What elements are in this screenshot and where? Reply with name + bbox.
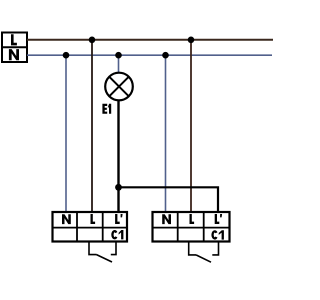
- junction: L bus / left L drop: [89, 37, 96, 44]
- terminal block of detector 1: [53, 212, 128, 242]
- terminal label L (block 1): [91, 214, 96, 224]
- terminal label L (block 2): [190, 214, 195, 224]
- terminal label L' (block 1): [115, 214, 123, 224]
- junction: N bus / right N drop: [162, 52, 169, 59]
- wire: lamp to switched-live node (black): [117, 101, 119, 212]
- terminal label N (block 2): [162, 214, 171, 224]
- junction: L bus / right L drop: [188, 37, 195, 44]
- terminal block of detector 2: [153, 212, 230, 242]
- wire: L drop to right block (brown): [190, 40, 192, 211]
- label N (supply neutral): [9, 49, 19, 60]
- wire: N bus (blue): [27, 54, 272, 56]
- contact label C1 (block 1): [112, 231, 116, 238]
- lamp E1 (circle with X): [105, 73, 133, 101]
- wire: L bus (brown): [27, 39, 273, 41]
- terminal label N (block 1): [62, 214, 71, 224]
- contact label C1 (block 2): [213, 231, 217, 238]
- wire: N drop to lamp (blue): [118, 55, 120, 73]
- supply terminal box (mains L/N): [2, 33, 27, 63]
- switch contact S2 (under block 2, L to C1): [189, 243, 219, 263]
- wire: L drop to left block (brown): [91, 40, 93, 211]
- label L (supply live): [11, 34, 17, 45]
- label E1: [102, 104, 111, 114]
- switch contact S1 (under block 1, L to C1): [89, 243, 116, 263]
- junction: N bus / left N drop: [63, 52, 70, 59]
- wire: switched-live link to right block L' (black): [119, 187, 219, 211]
- junction: switched-live node: [115, 184, 122, 191]
- wire: N drop to left block (blue): [65, 55, 67, 211]
- junction: N bus / lamp drop: [115, 52, 122, 59]
- terminal label L' (block 2): [215, 214, 222, 224]
- wire: N drop to right block (blue): [165, 55, 167, 211]
